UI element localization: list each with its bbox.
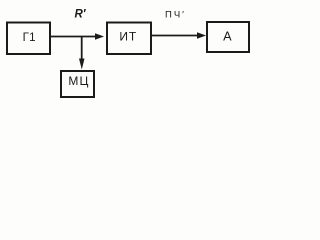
block G1 — [7, 23, 50, 55]
arrowhead into MC — [79, 59, 85, 70]
block IT — [107, 23, 151, 55]
wire IT to A — [152, 35, 198, 37]
svg-text:ИТ: ИТ — [119, 30, 137, 44]
svg-text:Г1: Г1 — [23, 32, 36, 44]
svg-text:МЦ: МЦ — [68, 74, 89, 88]
svg-text:А: А — [223, 30, 232, 44]
svg-text:ПЧ′: ПЧ′ — [165, 10, 186, 21]
arrowhead into A — [197, 32, 206, 38]
arrowhead into IT — [95, 33, 104, 39]
node junction wire down — [81, 37, 83, 61]
svg-text:R′: R′ — [75, 9, 87, 21]
block A — [207, 22, 249, 52]
wire G1 to IT — [51, 36, 97, 38]
block MC — [61, 71, 94, 97]
